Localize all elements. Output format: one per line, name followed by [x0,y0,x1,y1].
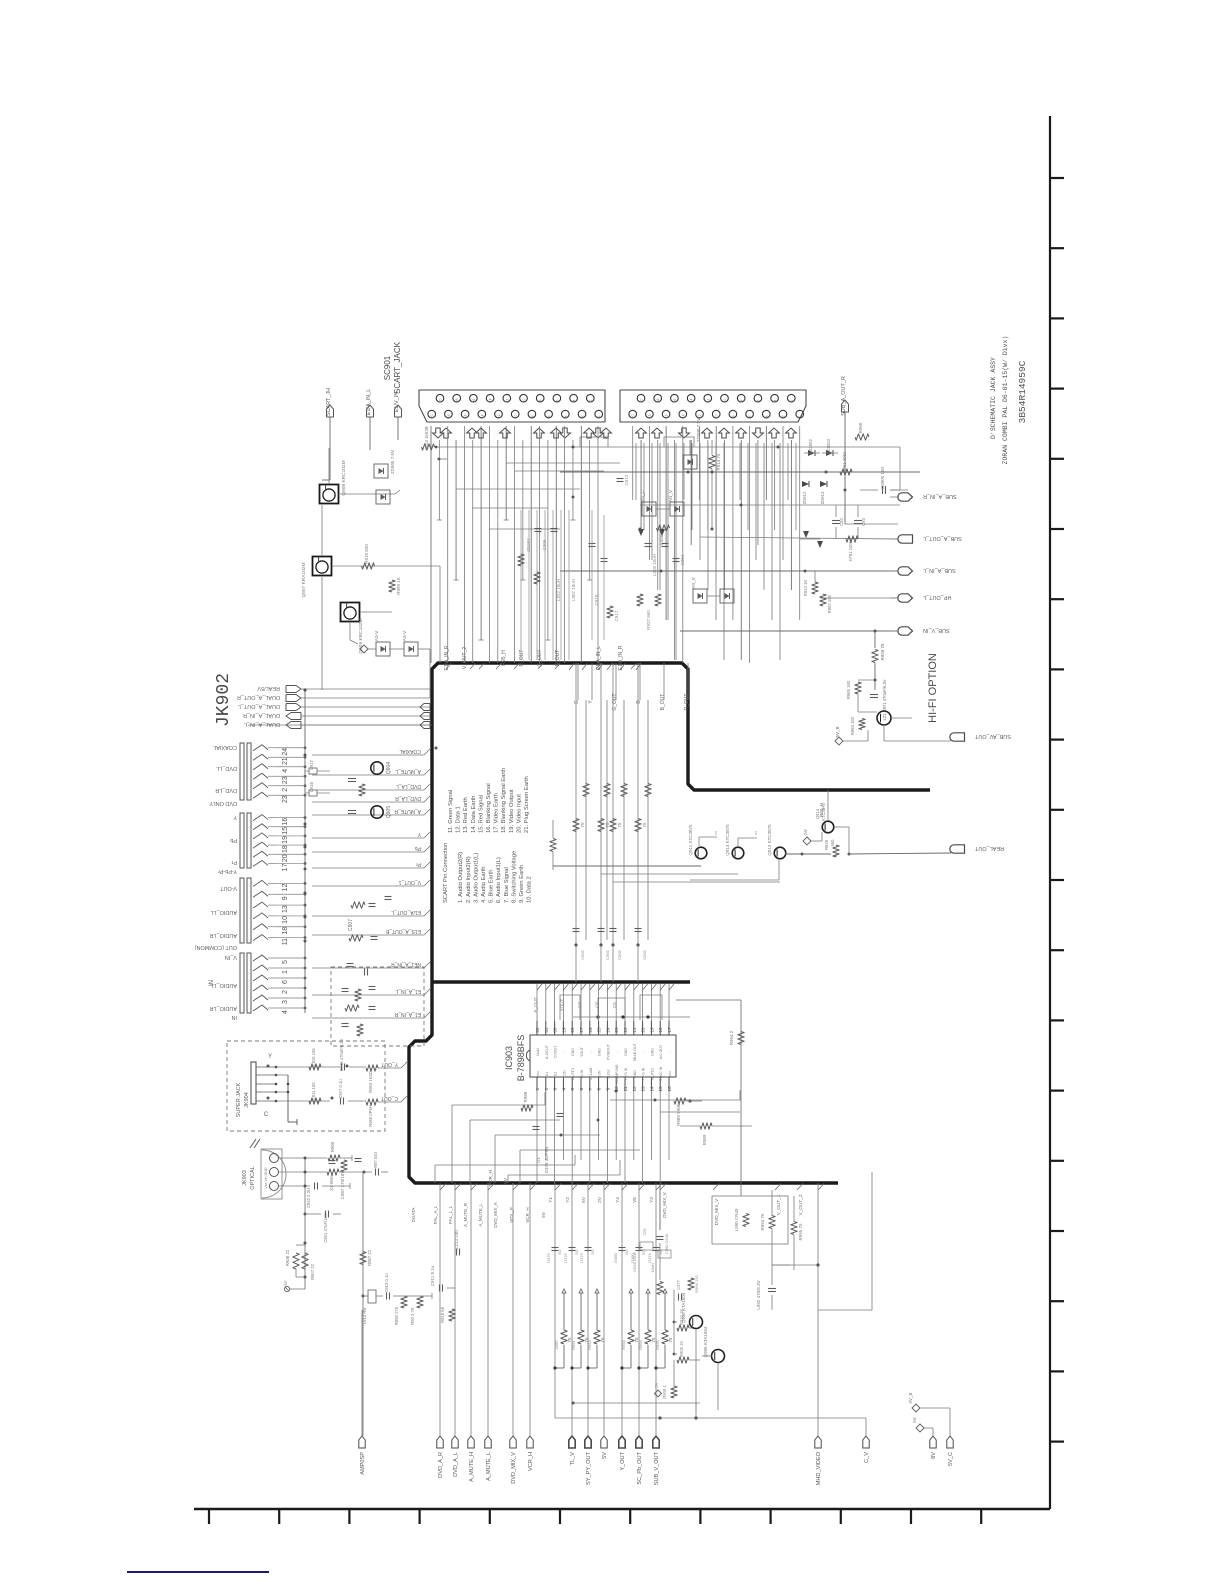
svg-text:10: 10 [514,414,518,418]
svg-text:SUB_A_OUT_R: SUB_A_OUT_R [841,376,847,416]
svg-text:BLAMP2NB: BLAMP2NB [615,1064,619,1084]
svg-text:DGATA: DGATA [411,1208,416,1223]
svg-text:R90B: R90B [330,1142,335,1153]
svg-text:Pb: Pb [230,837,237,843]
svg-text:C965: C965 [580,949,585,959]
svg-text:Q906 KTA1504: Q906 KTA1504 [681,1292,686,1323]
svg-text:R995 75: R995 75 [798,1223,803,1241]
svg-text:10: 10 [282,916,289,924]
svg-text:24: 24 [282,748,289,756]
svg-text:5U: 5U [624,1249,629,1254]
svg-text:5U: 5U [590,1249,595,1254]
svg-text:DUAL_A_IN_R: DUAL_A_IN_R [243,712,280,718]
svg-text:R926 75: R926 75 [880,643,885,661]
svg-text:S2: S2 [554,1072,558,1076]
svg-text:R989 590k: R989 590k [676,1103,681,1126]
svg-text:2: 2 [282,990,289,994]
svg-text:12. Data 1: 12. Data 1 [456,806,462,833]
svg-text:D378 3UP5N: D378 3UP5N [544,1147,549,1174]
svg-text:E_OUT: E_OUT [533,997,538,1012]
svg-text:C912: C912 [624,474,629,485]
svg-text:HI-FI OPTION: HI-FI OPTION [927,653,939,723]
svg-text:2. Audio Input2(R): 2. Audio Input2(R) [466,856,472,903]
svg-text:13. Red Earth: 13. Red Earth [463,797,469,833]
svg-text:E1/A_OUT_L: E1/A_OUT_L [391,909,421,915]
svg-text:18: 18 [648,414,652,418]
svg-text:21: 21 [282,757,289,765]
svg-text:DUAL_A_OUT_R: DUAL_A_OUT_R [237,694,280,700]
svg-text:20. Video Input: 20. Video Input [516,794,522,833]
svg-text:9: 9 [282,896,289,900]
svg-text:C5: C5 [612,1002,617,1008]
svg-text:AUDIO_LR: AUDIO_LR [209,932,237,938]
svg-text:15: 15 [658,1086,663,1092]
svg-text:3: 3 [282,1000,289,1004]
svg-text:SUB_AV_OUT: SUB_AV_OUT [974,733,1011,739]
svg-text:11. Green Signal: 11. Green Signal [448,790,454,833]
svg-text:SYNC IN: SYNC IN [659,1066,663,1081]
svg-text:18: 18 [658,1027,663,1033]
svg-text:8: 8 [530,415,534,417]
svg-text:SC_Pb_OUT: SC_Pb_OUT [637,1451,643,1484]
svg-text:10: 10 [723,399,727,403]
svg-text:GND: GND [624,1048,628,1056]
svg-text:16: 16 [665,414,669,418]
svg-text:H761 3061: H761 3061 [842,451,847,472]
svg-text:C942 0.3U: C942 0.3U [306,1188,311,1208]
svg-text:R984 150: R984 150 [850,716,855,735]
svg-text:13: 13 [641,1086,646,1092]
svg-text:PAL_A_L: PAL_A_L [433,1205,438,1224]
svg-text:E1/A_IN_R: E1/A_IN_R [618,645,624,670]
svg-text:ZD905 7.5V: ZD905 7.5V [390,450,395,474]
svg-text:SCART_JACK: SCART_JACK [393,341,402,394]
svg-text:8: 8 [731,415,735,417]
svg-text:R95_H: R95_H [501,650,507,666]
svg-text:25: 25 [597,1027,602,1033]
svg-text:DUAL_A_IN_L: DUAL_A_IN_L [244,721,280,727]
svg-text:4: 4 [765,415,769,417]
svg-text:30: 30 [553,1027,558,1033]
svg-text:10: 10 [522,399,526,403]
svg-text:VCR_H: VCR_H [528,1452,534,1471]
svg-text:V_OUT_1: V_OUT_1 [399,879,421,885]
svg-text:C377: C377 [676,1279,681,1290]
svg-text:C913 0.1u: C913 0.1u [384,1273,389,1293]
svg-text:24: 24 [605,1027,610,1033]
svg-text:AUDIO_LL: AUDIO_LL [210,982,237,988]
svg-text:VCR_H: VCR_H [525,1207,530,1222]
svg-text:ZORAN COMBI PAL D6-01-15(W/ Di: ZORAN COMBI PAL D6-01-15(W/ Divx) [1002,336,1009,465]
svg-text:6. Audio Input1(L): 6. Audio Input1(L) [496,857,502,903]
svg-text:Vcc: Vcc [668,1071,672,1077]
svg-text:18. Blanking Signal Earth: 18. Blanking Signal Earth [501,768,507,833]
svg-text:AS-V: AS-V [374,631,379,642]
svg-text:L917: L917 [309,759,314,770]
svg-text:SCART Pin Connection: SCART Pin Connection [443,843,449,903]
svg-text:Q905: Q905 [386,806,392,818]
svg-text:D375: D375 [579,1252,584,1262]
svg-text:AUDIO_LL: AUDIO_LL [210,909,237,915]
svg-text:R97 540: R97 540 [373,1151,378,1168]
svg-text:5V: 5V [912,1417,917,1423]
svg-text:560: 560 [830,839,835,847]
svg-text:ZD907: ZD907 [526,538,531,552]
svg-text:12: 12 [282,883,289,891]
svg-text:HP_OUT_L: HP_OUT_L [923,594,951,600]
svg-text:C: C [264,1112,269,1118]
svg-text:R927 960: R927 960 [646,610,651,630]
svg-text:DVD_LA_L: DVD_LA_L [396,783,421,789]
svg-text:7: 7 [588,1087,593,1090]
svg-text:D1: D1 [536,1157,541,1163]
svg-text:1. Audio Output2(R): 1. Audio Output2(R) [458,852,464,903]
svg-text:AS_C: AS_C [640,489,645,502]
svg-text:PV/S IN: PV/S IN [624,1067,628,1080]
svg-text:31: 31 [544,1027,549,1033]
svg-text:21. Plug Screen Earth: 21. Plug Screen Earth [524,776,530,833]
svg-text:3. Audio Output1(L): 3. Audio Output1(L) [473,853,479,903]
svg-text:5V: 5V [654,1382,659,1387]
svg-text:E1/A_IN_R: E1/A_IN_R [444,645,450,670]
svg-text:V_OUT_2: V_OUT_2 [462,647,468,669]
svg-text:GND: GND [571,1048,575,1056]
svg-text:H781 10061: H781 10061 [848,538,853,561]
svg-text:R908 4: R908 4 [662,1385,667,1399]
svg-text:L911 155: L911 155 [311,1082,316,1100]
svg-text:C947 0.1u: C947 0.1u [338,1079,343,1099]
svg-text:8V: 8V [931,1452,937,1459]
svg-text:6: 6 [555,399,559,401]
svg-text:SUB_A_IN_L: SUB_A_IN_L [923,567,956,573]
svg-text:Y_OUT: Y_OUT [381,1061,398,1067]
svg-text:R985 180: R985 180 [846,680,851,699]
svg-text:2: 2 [782,415,786,417]
svg-text:6: 6 [282,980,289,984]
svg-text:L907 10uH: L907 10uH [571,579,576,601]
svg-text:PAL_L_L: PAL_L_L [448,1205,453,1224]
svg-text:5V: 5V [283,1280,288,1285]
svg-text:R_OUT: R_OUT [519,650,525,667]
svg-text:5V_B: 5V_B [835,726,840,737]
svg-text:MUTE2: MUTE2 [650,1068,654,1080]
svg-text:R996 220: R996 220 [694,1275,699,1293]
svg-text:4: 4 [572,399,576,401]
svg-text:X1 909a: X1 909a [329,1175,334,1191]
svg-text:B-OCUT: B-OCUT [545,1044,549,1059]
svg-text:PV/BOUT: PV/BOUT [606,1043,610,1060]
svg-text:R965: R965 [655,1339,660,1349]
svg-text:Y: Y [268,1054,272,1060]
svg-text:R_OUT: R_OUT [684,694,690,711]
svg-text:75: 75 [580,822,585,828]
svg-text:5V: 5V [503,1177,508,1184]
svg-text:E1_A_IN_L: E1_A_IN_L [395,988,421,994]
svg-text:32602: 32602 [808,439,813,451]
svg-text:Q911 KTC3875: Q911 KTC3875 [688,824,693,855]
svg-text:AN_V: AN_V [668,490,673,502]
svg-text:R951: R951 [571,1339,576,1349]
svg-text:5. Blue Earth: 5. Blue Earth [489,869,495,903]
svg-text:E1_A_IN_R: E1_A_IN_R [394,1011,421,1017]
svg-text:D380: D380 [613,1252,618,1262]
svg-text:SY_PY_OUT: SY_PY_OUT [586,1451,592,1485]
svg-text:Q904: Q904 [386,762,392,774]
svg-text:SC901: SC901 [383,355,392,380]
svg-text:Q912 KTC3875: Q912 KTC3875 [767,824,772,856]
svg-text:2: 2 [589,399,593,401]
svg-text:16. Blanking Signal: 16. Blanking Signal [486,783,492,833]
svg-text:V5: V5 [632,1197,637,1203]
svg-text:18: 18 [656,399,660,403]
svg-text:JK903: JK903 [242,1170,248,1186]
svg-text:B-7898BFS: B-7898BFS [516,1035,526,1082]
svg-text:14: 14 [690,399,694,403]
svg-text:20: 20 [430,414,434,418]
svg-text:R909 1K: R909 1K [679,1341,684,1358]
svg-text:5V: 5V [541,1212,546,1218]
svg-text:AS-V: AS-V [402,631,407,642]
svg-text:23: 23 [282,795,289,803]
svg-text:20: 20 [282,854,289,862]
svg-text:GND: GND [633,1070,637,1078]
svg-text:75: 75 [668,1337,673,1343]
svg-text:CVIN: CVIN [580,1069,584,1078]
svg-text:COAXIAL: COAXIAL [399,748,421,754]
svg-text:26: 26 [588,1027,593,1033]
svg-text:JK902: JK902 [214,673,234,727]
svg-text:Y-Pb-Pr: Y-Pb-Pr [218,868,237,874]
svg-text:PV/S IN: PV/S IN [642,1067,646,1080]
svg-text:5U: 5U [557,1249,562,1254]
svg-text:L990 CR40: L990 CR40 [734,1208,739,1231]
svg-text:SUB_V_IN: SUB_V_IN [923,627,950,633]
svg-text:CVOUT: CVOUT [554,1045,558,1058]
svg-text:R954 2: R954 2 [729,1030,734,1045]
svg-text:R914 75: R914 75 [716,453,721,471]
svg-text:Q907 KRA102M: Q907 KRA102M [301,563,307,598]
svg-text:C934 10uF: C934 10uF [632,1252,637,1272]
svg-text:R963 1K5D: R963 1K5D [368,1071,373,1093]
svg-text:11: 11 [623,1086,628,1091]
svg-text:C93: C93 [861,517,866,525]
svg-text:R929: R929 [824,839,829,850]
svg-text:D375: D375 [546,1252,551,1262]
svg-text:6: 6 [547,415,551,417]
svg-text:5V: 5V [803,829,808,835]
svg-text:C911 0.1u: C911 0.1u [430,1265,435,1286]
svg-text:R907 22: R907 22 [310,1263,315,1280]
svg-text:14: 14 [489,399,493,403]
svg-text:DVD_A_R: DVD_A_R [438,1452,444,1478]
svg-text:MUTE1: MUTE1 [571,1068,575,1080]
svg-text:DVD ONLY: DVD ONLY [209,800,237,806]
svg-text:Q908 KRC102M: Q908 KRC102M [341,460,347,495]
svg-text:NE1_A_IN_R: NE1_A_IN_R [391,961,421,967]
svg-text:2: 2 [790,399,794,401]
svg-text:23: 23 [614,1027,619,1033]
svg-text:Y: Y [233,814,237,820]
svg-text:DVD_LA_R: DVD_LA_R [395,795,421,801]
svg-text:A_MUTE_L: A_MUTE_L [486,1452,492,1481]
svg-text:DUAL_A_OUT_L: DUAL_A_OUT_L [238,703,280,709]
svg-text:REAL_OUT: REAL_OUT [974,845,1004,851]
svg-text:L21 C971 470uF/6.3V: L21 C971 470uF/6.3V [882,679,887,720]
svg-text:Out4: Out4 [536,1048,540,1056]
svg-text:5V_B: 5V_B [908,1392,913,1403]
svg-text:Y_OUT: Y_OUT [620,1451,626,1470]
svg-text:12: 12 [497,414,501,418]
svg-text:AMP0SP: AMP0SP [360,1452,366,1475]
svg-text:SUPER JACK: SUPER JACK [236,1082,242,1117]
svg-text:E1/A_IN_L: E1/A_IN_L [366,389,372,416]
svg-text:2: 2 [581,415,585,417]
svg-text:D374: D374 [647,1252,652,1262]
svg-text:SCART_JH: SCART_JH [326,388,332,416]
svg-text:C965: C965 [642,949,647,959]
svg-text:4: 4 [561,1087,566,1090]
svg-text:18: 18 [447,414,451,418]
svg-text:16: 16 [673,399,677,403]
svg-text:19: 19 [282,836,289,844]
svg-text:C950 C940: C950 C940 [664,1233,669,1254]
svg-text:GND: GND [598,1048,602,1056]
svg-text:4: 4 [282,1010,289,1014]
svg-text:Y1: Y1 [548,1197,553,1203]
svg-text:L915 155: L915 155 [311,1048,316,1066]
svg-text:23: 23 [282,776,289,784]
svg-text:E1S_A_OUT_B: E1S_A_OUT_B [385,928,421,934]
svg-text:5V: 5V [581,1196,586,1203]
svg-text:10: 10 [715,414,719,418]
svg-text:MHD_VIDEO: MHD_VIDEO [816,1451,822,1485]
svg-text:Pr: Pr [416,861,421,867]
svg-text:16: 16 [472,399,476,403]
svg-text:16: 16 [667,1086,672,1092]
svg-text:C941 47uF/16V: C941 47uF/16V [323,1213,328,1243]
svg-text:R987 22: R987 22 [367,1249,372,1266]
svg-text:VCR_H: VCR_H [488,1170,493,1186]
svg-text:5: 5 [282,960,289,964]
svg-text:C909: C909 [542,539,547,550]
svg-text:6: 6 [756,399,760,401]
svg-text:C9905 150: C9905 150 [880,466,885,489]
svg-text:L905 10uH: L905 10uH [652,554,657,576]
svg-text:E1/V_IN: E1/V_IN [394,392,400,413]
svg-text:A_MUTE_R: A_MUTE_R [394,808,421,814]
svg-text:D'SCHEMATIC JACK ASSY: D'SCHEMATIC JACK ASSY [990,357,997,439]
svg-text:9. Green Earth: 9. Green Earth [519,865,525,903]
svg-text:5V_C: 5V_C [948,1452,954,1466]
svg-text:COAXIAL: COAXIAL [213,744,237,750]
svg-text:IC903: IC903 [504,1046,514,1070]
svg-text:3: 3 [553,1087,558,1090]
svg-text:1: 1 [535,1087,540,1090]
svg-text:DVD_LL: DVD_LL [216,765,237,771]
svg-text:4: 4 [282,769,289,773]
svg-text:C2N: C2N [562,1070,566,1078]
svg-text:1: 1 [282,970,289,974]
svg-text:27: 27 [579,1027,584,1033]
svg-text:Q913 KTC3875: Q913 KTC3875 [725,824,730,856]
svg-text:AS_V: AS_V [691,577,696,589]
svg-text:13: 13 [282,905,289,913]
svg-text:11: 11 [282,938,289,945]
svg-text:R994 75: R994 75 [760,1213,765,1231]
svg-text:8: 8 [597,1087,602,1090]
svg-text:20: 20 [640,399,644,403]
svg-text:4490: 4490 [554,1340,559,1350]
svg-text:4: 4 [773,399,777,401]
svg-text:C8502: C8502 [826,438,831,451]
svg-text:V_IN: V_IN [225,954,237,960]
svg-text:20: 20 [631,414,635,418]
svg-text:SUB_A_IN_R: SUB_A_IN_R [923,493,957,499]
svg-text:C213 240: C213 240 [454,1230,459,1250]
svg-text:A_MUTE_L: A_MUTE_L [395,768,421,774]
svg-text:10uH: 10uH [650,1263,655,1273]
svg-text:C910: C910 [594,594,599,605]
svg-text:C_V: C_V [864,1452,870,1463]
svg-text:OPTICAL: OPTICAL [250,1166,256,1190]
svg-text:4. Audio Earth: 4. Audio Earth [481,867,487,903]
svg-text:A_MUTE_H: A_MUTE_H [469,1452,475,1482]
svg-text:10. Data 2: 10. Data 2 [527,876,533,903]
svg-text:R988: R988 [523,1091,528,1102]
svg-text:75: 75 [605,822,610,828]
svg-text:18: 18 [282,927,289,935]
svg-text:8: 8 [539,399,543,401]
svg-text:IN: IN [231,1014,237,1020]
svg-text:C965: C965 [605,949,610,959]
svg-text:19: 19 [649,1027,654,1033]
svg-text:28: 28 [570,1027,575,1033]
svg-text:TL_V: TL_V [570,1452,576,1466]
svg-text:6: 6 [748,415,752,417]
svg-text:S1: S1 [545,1072,549,1076]
svg-text:220: 220 [642,1228,647,1235]
svg-text:5V: 5V [602,1452,608,1459]
svg-text:2V: 2V [597,1196,602,1203]
svg-text:YOUT: YOUT [580,1046,584,1057]
svg-text:19. Video Output: 19. Video Output [509,789,515,833]
svg-text:DVD_MIX_V: DVD_MIX_V [714,1198,719,1225]
svg-text:C_OUT: C_OUT [381,1095,398,1101]
svg-text:C92: C92 [839,517,844,525]
svg-text:R964: R964 [638,1339,643,1349]
svg-text:L922 10uH: L922 10uH [556,579,561,601]
svg-text:ZD913: ZD913 [820,491,825,504]
svg-text:1: 1 [597,415,601,417]
svg-text:Q906 KTA1504: Q906 KTA1504 [703,1326,708,1357]
svg-text:R966 0P5H: R966 0P5H [368,1105,373,1127]
svg-text:V_OUT_2: V_OUT_2 [798,1194,803,1215]
svg-text:32: 32 [535,1027,540,1033]
svg-text:JK904: JK904 [244,1092,250,1108]
svg-text:17. Video Earth: 17. Video Earth [494,793,500,833]
svg-text:7. Blue Signal: 7. Blue Signal [504,867,510,903]
svg-text:Y2: Y2 [565,1197,570,1203]
svg-text:R60_H: R60_H [819,803,824,817]
svg-text:3B54R14959C: 3B54R14959C [1017,360,1028,423]
svg-text:18: 18 [282,845,289,853]
svg-text:Y4: Y4 [615,1197,620,1203]
svg-text:N1S2: N1S2 [606,1070,610,1079]
svg-text:A/V OUT: A/V OUT [659,1044,663,1059]
svg-text:Y3: Y3 [649,1197,654,1203]
svg-text:Y2N: Y2N [598,1070,602,1077]
svg-text:8: 8 [740,399,744,401]
